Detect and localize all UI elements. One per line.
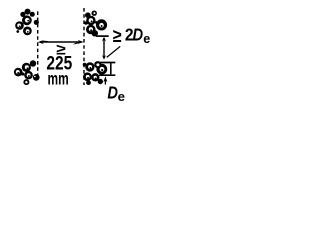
cable bundle bottom-left xyxy=(14,60,40,85)
label De xyxy=(107,83,125,104)
label >= 225 mm xyxy=(46,41,72,88)
cable bundle top-left xyxy=(15,9,39,36)
leader line to 2De label xyxy=(107,46,121,57)
bottom extension bar (bottom of cable) xyxy=(99,74,115,76)
middle extension bar (top of cable) xyxy=(97,62,115,64)
left arrowhead xyxy=(38,40,44,44)
svg-text:e: e xyxy=(143,32,150,46)
right support dashed line xyxy=(83,8,85,85)
svg-text:D: D xyxy=(133,24,144,44)
right arrowhead xyxy=(78,40,84,44)
down arrowhead xyxy=(102,55,106,60)
svg-text:≥: ≥ xyxy=(113,26,122,47)
svg-text:e: e xyxy=(118,89,125,104)
label >= 2De xyxy=(113,24,151,47)
lower up-arrow for De xyxy=(103,76,107,82)
horizontal dimension line (>= 225 mm) xyxy=(40,41,81,43)
svg-text:D: D xyxy=(107,83,118,103)
cable bundle bottom-right xyxy=(83,61,108,85)
De dimension line between bars xyxy=(110,63,112,74)
vertical dimension >= 2De : top extension bar xyxy=(96,35,109,37)
dimension line xyxy=(103,38,105,57)
left support dashed line xyxy=(37,11,39,78)
up arrowhead xyxy=(102,37,106,41)
cable bundle top-right xyxy=(84,11,107,37)
svg-text:mm: mm xyxy=(48,68,69,88)
